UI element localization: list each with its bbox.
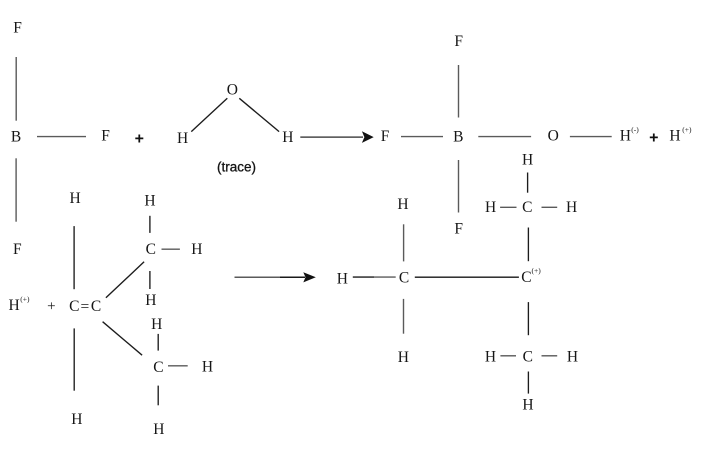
wire bond C-H upper CH3 horizontal xyxy=(162,248,180,250)
reaction arrow 2 head xyxy=(303,272,316,282)
wire bond F1-B1 vertical xyxy=(15,57,17,121)
svg-text:H: H xyxy=(144,192,155,209)
svg-text:H: H xyxy=(153,421,164,438)
wire bond C-H bottom-right CH3 right xyxy=(542,355,558,357)
wire bond H-O water left diagonal xyxy=(191,98,227,131)
svg-text:F: F xyxy=(454,220,463,237)
svg-text:C: C xyxy=(523,348,533,365)
svg-text:F: F xyxy=(13,241,22,258)
svg-text:H: H xyxy=(71,411,82,428)
wire bond H-C bottom-right CH3 left xyxy=(500,355,516,357)
svg-text:O: O xyxy=(227,81,238,98)
wire bond H-C3 vertical upper xyxy=(403,224,405,261)
wire bond B1-F2 horizontal xyxy=(37,136,86,138)
wire bond C3-H vertical lower xyxy=(403,299,405,334)
wire bond C4 to bottom CH3 vertical xyxy=(527,302,529,335)
wire bond C-H bottom-right CH3 vertical lower xyxy=(527,372,529,394)
svg-text:H: H xyxy=(398,349,409,366)
svg-text:H: H xyxy=(669,127,680,144)
svg-text:H: H xyxy=(69,190,80,207)
svg-text:H: H xyxy=(202,359,213,376)
wire bond H-C1 vertical upper xyxy=(73,226,75,289)
svg-text:+: + xyxy=(135,130,144,147)
svg-text:(-): (-) xyxy=(631,125,639,134)
wire bond H-C lower CH3 vertical xyxy=(157,334,159,351)
wire bond F4-B2 vertical xyxy=(458,65,460,118)
svg-text:+: + xyxy=(47,298,55,314)
svg-text:F: F xyxy=(381,128,390,145)
svg-text:C: C xyxy=(522,199,532,216)
svg-text:H: H xyxy=(522,397,533,414)
wire bond B2-F5 vertical xyxy=(458,160,460,213)
svg-text:C: C xyxy=(399,269,409,286)
svg-text:C: C xyxy=(521,269,531,286)
wire bond C1-H vertical lower xyxy=(73,328,75,390)
reaction arrow 1 head xyxy=(362,131,374,143)
svg-text:(+): (+) xyxy=(682,125,692,134)
svg-text:H: H xyxy=(397,196,408,213)
svg-text:O: O xyxy=(548,127,559,144)
wire reaction arrow 2 shaft xyxy=(235,276,281,278)
svg-text:C: C xyxy=(153,359,163,376)
svg-text:H: H xyxy=(522,152,533,169)
svg-text:H: H xyxy=(567,348,578,365)
wire bond H-C upper CH3 vertical xyxy=(149,216,151,233)
svg-text:H: H xyxy=(151,316,162,333)
wire bond C2 to upper CH3 diagonal xyxy=(106,262,144,298)
svg-text:C: C xyxy=(69,298,79,315)
wire bond C-H upper CH3 vertical lower xyxy=(149,271,151,289)
svg-text:C: C xyxy=(146,241,156,258)
svg-text:(+): (+) xyxy=(20,294,30,303)
wire bond F3-B2 xyxy=(401,136,443,138)
svg-text:H: H xyxy=(566,199,577,216)
svg-text:H: H xyxy=(485,199,496,216)
wire bond H-C top-right CH3 left xyxy=(500,206,516,208)
svg-text:F: F xyxy=(101,128,110,145)
svg-text:H: H xyxy=(620,127,631,144)
wire bond B1-F6 vertical lower xyxy=(15,158,17,221)
wire bond B2-O2 xyxy=(478,136,531,138)
wire bond H-C3 xyxy=(353,276,374,278)
svg-text:H: H xyxy=(8,297,19,314)
wire bond C-H lower CH3 vertical lower xyxy=(157,386,159,406)
svg-text:H: H xyxy=(282,129,293,146)
wire bond H-C top-right CH3 vertical xyxy=(527,173,529,193)
svg-text:H: H xyxy=(485,348,496,365)
svg-text:B: B xyxy=(453,128,463,145)
wire bond C-H top-right CH3 right xyxy=(542,206,558,208)
svg-text:F: F xyxy=(454,33,463,50)
svg-text:C: C xyxy=(91,298,101,315)
wire bond C-H lower CH3 horizontal xyxy=(168,365,188,367)
svg-text:H: H xyxy=(145,292,156,309)
wire bond C4 to top CH3 vertical xyxy=(527,228,529,262)
svg-text:H: H xyxy=(191,241,202,258)
wire bond O2-H3 xyxy=(570,136,612,138)
svg-text:(trace): (trace) xyxy=(217,159,256,174)
svg-text:H: H xyxy=(177,130,188,147)
wire bond C2 to lower CH3 diagonal xyxy=(103,322,143,356)
svg-text:B: B xyxy=(11,129,21,146)
wire bond C3-C4 long horizontal xyxy=(415,276,519,278)
wire reaction arrow 1 shaft xyxy=(300,136,363,138)
svg-text:=: = xyxy=(81,298,90,315)
svg-text:F: F xyxy=(13,19,22,36)
svg-text:+: + xyxy=(649,130,658,147)
wire bond O-H water right diagonal xyxy=(239,98,279,131)
svg-text:H: H xyxy=(337,271,348,288)
svg-text:(+): (+) xyxy=(532,266,542,275)
